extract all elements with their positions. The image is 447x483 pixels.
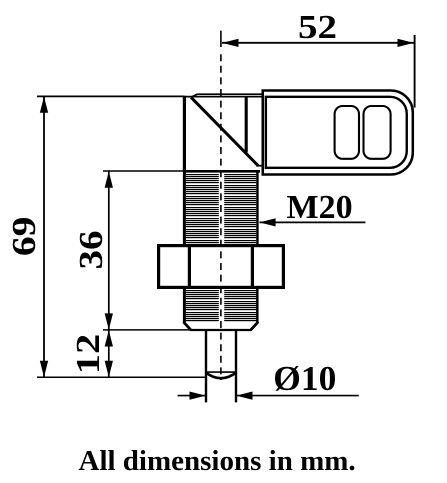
dim 36 arrow bottom: [105, 313, 113, 329]
pin right edge: [235, 330, 237, 402]
body top lower line: [183, 96, 262, 98]
lower chamfer left: [183, 322, 190, 330]
svg-text:52: 52: [298, 9, 337, 46]
grip hole 2: [364, 106, 391, 159]
dim 69 line: [43, 96, 45, 377]
dim 36 arrow top: [105, 171, 113, 187]
dia10 arrow left: [190, 391, 206, 399]
upper thread right edge: [256, 171, 259, 245]
svg-text:36: 36: [73, 231, 110, 270]
svg-text:All dimensions in mm.: All dimensions in mm.: [79, 445, 356, 477]
lower chamfer right: [251, 322, 258, 330]
svg-text:M20: M20: [287, 189, 353, 226]
nut facet right: [251, 246, 254, 287]
dim 52 arrow left: [222, 39, 238, 47]
body top upper line: [197, 93, 262, 95]
step to handle cap: [256, 165, 263, 167]
body top chamfer: [191, 94, 198, 97]
dim 36/12 ext mid: [103, 329, 224, 331]
dim 36 ext top: [103, 170, 184, 172]
lower thread left edge: [183, 288, 186, 322]
dia10 leader right tail: [237, 395, 359, 397]
centerline dashed: [220, 54, 222, 380]
dim 69 ext top: [37, 95, 184, 97]
thread hatch upper: [186, 174, 256, 243]
dim 69/12 ext bottom: [37, 376, 207, 378]
dim 69 arrow bottom: [40, 361, 48, 377]
dia10 leader left tail: [178, 395, 206, 397]
hex nut outline: [159, 246, 284, 288]
dim 52 line: [222, 42, 414, 44]
body block left edge: [183, 96, 186, 172]
nut facet left: [188, 246, 191, 287]
centerline solid top: [220, 31, 222, 47]
M20 leader line: [260, 221, 366, 223]
lower thread right edge: [256, 288, 259, 322]
pin left edge: [205, 330, 207, 402]
miter diagonal: [191, 97, 258, 166]
dim 12 arrow top: [105, 330, 113, 346]
dim 69 arrow top: [40, 97, 48, 113]
centerline white seam upper: [219, 172, 224, 245]
svg-text:Ø10: Ø10: [273, 359, 336, 398]
upper thread top edge: [183, 170, 260, 173]
pin dome arc: [206, 372, 237, 378]
dim 52 ext right: [414, 35, 416, 108]
pin dome tangent: [205, 371, 237, 373]
dia10 arrow right: [236, 391, 252, 399]
M20 arrow: [259, 218, 275, 226]
dim 52 arrow right: [398, 39, 414, 47]
svg-text:12: 12: [70, 334, 107, 375]
dim 12 arrow bottom: [105, 361, 113, 377]
dim 36/12 line: [108, 171, 110, 377]
centerline white seam lower: [219, 289, 224, 323]
upper thread left edge: [183, 171, 186, 245]
handle inner outline: [266, 97, 407, 168]
lower bottom edge: [190, 329, 252, 331]
thread hatch lower: [186, 290, 256, 321]
handle outer outline: [263, 91, 413, 175]
body inner vertical: [245, 96, 248, 153]
grip hole 1: [335, 106, 359, 159]
svg-text:69: 69: [6, 217, 43, 257]
